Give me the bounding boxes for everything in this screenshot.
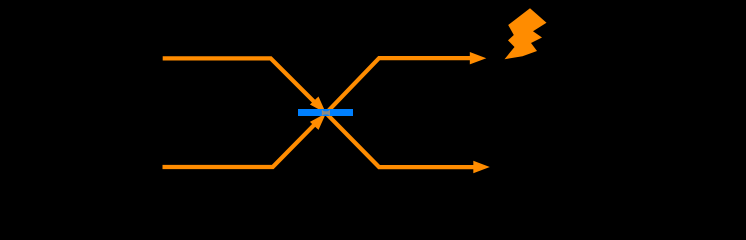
wire: input beam 2 (bottom-left, horizontal then diagonal to crossing) [163,120,320,167]
node: crossing point (gray bowtie blob at centre) [322,110,330,116]
wire: output beam 1 (diagonal up-right from crossing then horizontal) [326,58,474,113]
wire: output beam 2 (diagonal down-right from crossing then horizontal) [326,113,477,167]
arrowhead of input beam 1 (points down-right into crossing) [310,97,326,114]
arrowhead of output beam 2 (points right) [473,161,490,173]
barrier bar (blue rectangle over crossing) [298,109,353,116]
arrowhead of output beam 1 (points right) [470,52,487,64]
arrowhead of input beam 2 (points up-right into crossing) [310,113,326,130]
wire: input beam 1 (top-left, horizontal then diagonal to crossing) [163,58,319,106]
lightning bolt (flash symbol, top right) [505,8,547,59]
